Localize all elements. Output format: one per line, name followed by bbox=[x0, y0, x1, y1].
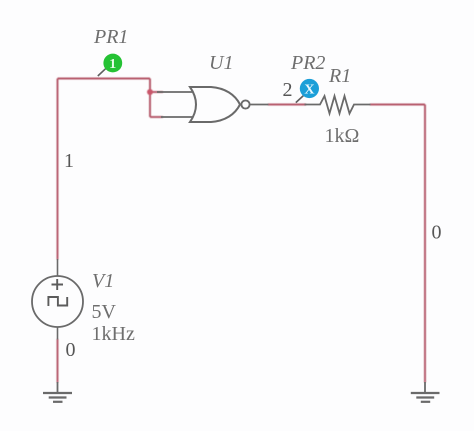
svg-text:PR2: PR2 bbox=[290, 52, 325, 74]
ground left bar1 bbox=[43, 392, 72, 394]
ground left bar2 bbox=[49, 396, 67, 398]
svg-text:1kHz: 1kHz bbox=[92, 323, 135, 345]
junction dot bbox=[147, 89, 153, 95]
probe PR1 leader bbox=[98, 69, 106, 76]
ground right stub bbox=[424, 382, 426, 393]
source V1 body circle bbox=[32, 276, 83, 327]
svg-text:1: 1 bbox=[109, 57, 116, 72]
wire net1 top horizontal bbox=[58, 78, 151, 80]
ground left stub bbox=[57, 382, 59, 393]
op-amp? no: NOR gate U1 input pin 1 bbox=[157, 91, 194, 93]
svg-text:X: X bbox=[304, 82, 314, 97]
svg-text:0: 0 bbox=[432, 221, 442, 243]
svg-text:2: 2 bbox=[283, 79, 293, 101]
NOR gate U1 output stub bbox=[250, 104, 269, 106]
source V1 square-wave glyph bbox=[48, 297, 67, 306]
svg-text:1: 1 bbox=[64, 150, 74, 172]
NOR gate U1 input pin 2 bbox=[161, 116, 194, 118]
NOR gate U1 body bbox=[190, 87, 240, 122]
ground right bar1 bbox=[411, 392, 440, 394]
svg-text:V1: V1 bbox=[92, 270, 114, 292]
svg-text:5V: 5V bbox=[92, 301, 117, 323]
probe PR2 circle bbox=[300, 79, 319, 98]
wire net1 bottom input bbox=[150, 116, 163, 118]
source V1 bottom pin bbox=[57, 327, 59, 340]
wire net1 left vertical bbox=[57, 79, 59, 260]
wire net1 corner vertical bbox=[149, 79, 151, 118]
wire net0 resistor to corner bbox=[370, 104, 425, 106]
svg-text:PR1: PR1 bbox=[93, 26, 128, 48]
NOR gate U1 output bubble bbox=[241, 100, 249, 108]
probe PR1 circle bbox=[103, 54, 122, 73]
wire net0 below V1 bbox=[57, 339, 59, 383]
wire net1 top input tap bbox=[150, 91, 163, 93]
source V1 plus sign bbox=[52, 279, 64, 290]
wire net0 right vertical bbox=[424, 105, 426, 383]
svg-text:R1: R1 bbox=[328, 65, 351, 87]
svg-text:1kΩ: 1kΩ bbox=[325, 125, 360, 147]
ground right bar3 bbox=[421, 401, 430, 403]
ground right bar2 bbox=[416, 396, 434, 398]
svg-text:U1: U1 bbox=[209, 52, 233, 74]
wire net2 gate output to resistor bbox=[268, 104, 306, 106]
resistor R1 bbox=[305, 96, 371, 114]
svg-text:0: 0 bbox=[66, 339, 76, 361]
source V1 top pin bbox=[57, 259, 59, 277]
ground left bar3 bbox=[53, 401, 63, 403]
probe PR2 leader bbox=[296, 96, 304, 103]
